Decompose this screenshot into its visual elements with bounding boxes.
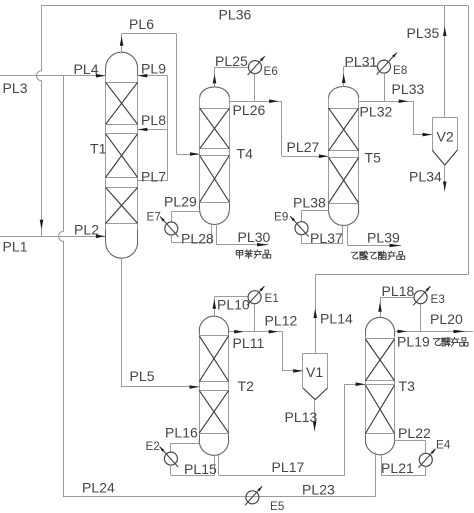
- svg-text:PL13: PL13: [285, 409, 318, 425]
- svg-text:PL23: PL23: [302, 482, 335, 498]
- svg-text:E4: E4: [436, 439, 451, 452]
- svg-text:PL38: PL38: [293, 195, 326, 211]
- svg-text:E6: E6: [264, 65, 278, 78]
- svg-text:PL2: PL2: [74, 222, 99, 238]
- svg-text:PL7: PL7: [141, 169, 166, 185]
- svg-text:PL27: PL27: [287, 139, 320, 155]
- svg-text:T4: T4: [237, 146, 254, 162]
- svg-text:T2: T2: [238, 378, 255, 394]
- svg-text:E9: E9: [274, 211, 288, 224]
- svg-text:PL30: PL30: [238, 229, 271, 245]
- svg-text:PL36: PL36: [219, 7, 252, 23]
- svg-text:PL19: PL19: [397, 334, 430, 350]
- svg-text:PL25: PL25: [215, 53, 248, 69]
- svg-text:PL16: PL16: [165, 425, 198, 441]
- svg-text:PL39: PL39: [367, 230, 400, 246]
- svg-text:PL32: PL32: [360, 104, 393, 120]
- svg-text:PL6: PL6: [129, 16, 154, 32]
- svg-text:PL8: PL8: [141, 112, 166, 128]
- svg-text:PL9: PL9: [141, 61, 166, 77]
- svg-text:PL21: PL21: [381, 460, 414, 476]
- svg-text:PL3: PL3: [3, 80, 28, 96]
- svg-text:PL22: PL22: [398, 425, 431, 441]
- svg-text:E5: E5: [270, 500, 284, 513]
- svg-text:PL10: PL10: [217, 297, 250, 313]
- svg-text:PL31: PL31: [345, 54, 378, 70]
- svg-text:E8: E8: [393, 64, 407, 77]
- svg-text:PL34: PL34: [409, 169, 442, 185]
- svg-text:T1: T1: [90, 141, 107, 157]
- svg-text:PL4: PL4: [74, 61, 99, 77]
- svg-text:PL35: PL35: [407, 25, 440, 41]
- svg-text:PL20: PL20: [430, 311, 463, 327]
- svg-text:V1: V1: [306, 364, 323, 380]
- svg-text:PL15: PL15: [184, 461, 217, 477]
- svg-text:PL29: PL29: [164, 194, 197, 210]
- svg-text:PL5: PL5: [130, 368, 155, 384]
- svg-text:PL37: PL37: [310, 230, 343, 246]
- svg-text:PL18: PL18: [382, 283, 415, 299]
- svg-text:PL17: PL17: [272, 459, 305, 475]
- svg-text:PL11: PL11: [233, 335, 265, 351]
- svg-text:E3: E3: [431, 293, 445, 306]
- svg-text:E1: E1: [265, 292, 279, 305]
- svg-text:PL26: PL26: [233, 102, 266, 118]
- svg-text:PL28: PL28: [181, 231, 214, 247]
- svg-text:E7: E7: [147, 211, 161, 224]
- svg-text:PL24: PL24: [82, 480, 115, 496]
- svg-text:T3: T3: [399, 378, 416, 394]
- svg-text:PL33: PL33: [392, 81, 425, 97]
- svg-text:E2: E2: [146, 440, 160, 453]
- svg-text:PL14: PL14: [320, 311, 353, 327]
- svg-text:PL12: PL12: [265, 313, 298, 329]
- svg-text:T5: T5: [365, 150, 382, 166]
- svg-text:V2: V2: [437, 129, 454, 145]
- svg-text:PL1: PL1: [3, 239, 28, 255]
